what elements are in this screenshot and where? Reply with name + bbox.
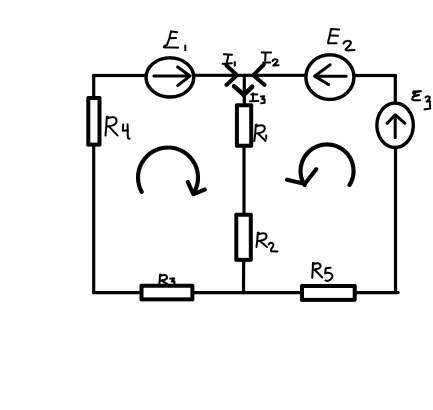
loop current arrow right mesh: [287, 144, 353, 185]
label I2: [262, 53, 279, 66]
wire E3 to bottom-right corner: [394, 148, 397, 293]
wire bottom right (corner to R5): [355, 291, 398, 294]
current arrow I1: [227, 66, 238, 85]
label R2: [257, 233, 278, 252]
current arrow I3: [234, 86, 252, 95]
loop current arrow left mesh: [138, 148, 205, 195]
label R5: [312, 263, 332, 281]
label R4: [106, 117, 130, 139]
voltage source E1: [146, 58, 194, 97]
wire middle branch junction to R1: [243, 75, 246, 105]
wire bottom between middle branch and R3: [192, 291, 243, 294]
wire junction to E2: [244, 74, 305, 77]
wire left side above R4: [92, 76, 95, 99]
label I3: [250, 93, 265, 103]
wire E2 to top-right corner: [355, 74, 395, 77]
wire right top (corner to E3): [394, 76, 397, 104]
label E1: [164, 31, 185, 50]
resistor R3: [142, 286, 193, 300]
voltage source E3: [377, 103, 413, 147]
resistor R1: [237, 105, 251, 145]
wire middle branch R2 to bottom: [242, 260, 245, 293]
label R3: [159, 275, 174, 287]
wire middle branch R1 to R2: [242, 146, 245, 215]
wire bottom between R5 and middle branch: [244, 291, 303, 294]
voltage source E2: [306, 55, 354, 100]
label E2: [328, 29, 354, 51]
resistor R2: [236, 215, 251, 260]
resistor R4: [88, 98, 99, 145]
label E3: [412, 91, 430, 109]
current arrow I2: [253, 65, 264, 85]
resistor R5: [302, 286, 355, 300]
label R1: [254, 125, 266, 141]
wire E1 to junction: [194, 74, 245, 77]
wire left side below R4: [92, 145, 95, 293]
wire bottom left (R3 to left corner): [94, 291, 142, 294]
wire top-left (left corner to E1): [94, 74, 147, 77]
label I1: [223, 54, 235, 66]
